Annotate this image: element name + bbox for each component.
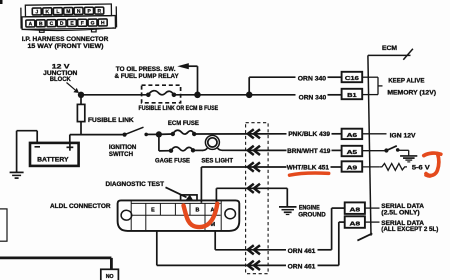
svg-text:(ALL EXCEPT 2 5L): (ALL EXCEPT 2 5L)	[381, 226, 438, 233]
node: oil pressure feed tap	[194, 92, 201, 99]
svg-text:DIAGNOSTIC TEST: DIAGNOSTIC TEST	[106, 181, 165, 188]
svg-text:ORN 340: ORN 340	[299, 94, 327, 101]
svg-text:A6: A6	[347, 133, 359, 139]
pin box A6	[342, 129, 363, 139]
pin D	[57, 20, 66, 27]
svg-text:(2.5L ONLY): (2.5L ONLY)	[381, 209, 419, 216]
svg-text:J: J	[35, 9, 38, 15]
svg-text:ECM: ECM	[382, 45, 398, 52]
label: keep alive memory	[387, 78, 436, 97]
pin A	[26, 20, 35, 27]
pin box A9	[342, 161, 363, 171]
svg-text:ORN 461: ORN 461	[288, 248, 316, 255]
svg-text:& FUEL PUMP RELAY: & FUEL PUMP RELAY	[115, 73, 180, 80]
svg-text:ALDL CONNECTOR: ALDL CONNECTOR	[50, 203, 111, 210]
connector chevrons BRN/WHT	[248, 146, 260, 155]
connector chevrons WHT/BLK	[248, 162, 260, 171]
svg-text:BLOCK: BLOCK	[50, 76, 71, 83]
svg-text:NO: NO	[106, 274, 114, 280]
label: ignition switch	[109, 144, 137, 158]
svg-text:ORN 340: ORN 340	[298, 75, 327, 82]
connector chevrons ORN461 top	[248, 245, 260, 254]
ALDL pin letters	[151, 207, 216, 228]
pin box B1	[342, 89, 363, 99]
note box	[101, 269, 119, 280]
dashed box around fuse	[142, 85, 181, 103]
wire: gage fuse branch	[159, 134, 171, 151]
wire: PNK/BLK 439 to A6	[194, 133, 341, 135]
svg-text:R: R	[97, 8, 101, 14]
pin box A5	[342, 146, 363, 156]
connector mounting tabs	[40, 29, 97, 32]
wire: ALDL pin A to engine ground	[216, 188, 287, 206]
svg-text:SES LIGHT: SES LIGHT	[201, 157, 233, 164]
pin K	[43, 8, 52, 15]
svg-text:A9: A9	[347, 166, 359, 172]
battery B1	[30, 143, 79, 166]
pin P	[85, 7, 94, 14]
svg-text:MEMORY (12V): MEMORY (12V)	[387, 89, 436, 96]
svg-text:IGNITION: IGNITION	[109, 144, 137, 151]
fuse: gage fuse	[169, 147, 195, 153]
pin C	[47, 20, 56, 27]
svg-text:GAGE FUSE: GAGE FUSE	[155, 157, 191, 164]
svg-text:FUSIBLE LINK: FUSIBLE LINK	[88, 117, 134, 124]
keep alive memory bracket	[362, 77, 382, 94]
svg-text:F: F	[81, 21, 84, 27]
svg-text:B: B	[195, 208, 199, 214]
svg-text:SWITCH: SWITCH	[109, 151, 133, 158]
I.P. harness connector 15-way (shell)	[21, 4, 117, 31]
pin L	[53, 8, 62, 15]
wire: BRN/WHT 419 to A5	[222, 149, 342, 151]
pin E	[67, 19, 76, 26]
ALDL end circles	[121, 210, 132, 220]
pin B	[36, 20, 45, 27]
ECM boundary line	[357, 49, 413, 241]
svg-text:A: A	[29, 21, 33, 27]
svg-text:ECM FUSE: ECM FUSE	[168, 120, 200, 127]
label: I.P. harness connector	[22, 36, 109, 50]
wire: ORN 461 ALDL E to A8	[157, 222, 345, 265]
wire: battery positive to ignition switch	[70, 135, 125, 143]
node: ORN 340 split	[246, 92, 253, 99]
svg-text:G: G	[91, 20, 95, 26]
pin box A8 (2.5L)	[345, 202, 365, 214]
label: serial data 2.5L	[381, 203, 438, 233]
leftover box from adjacent diagram	[0, 209, 7, 241]
ground: ECM internal	[400, 156, 417, 162]
ALDL inner grid	[131, 200, 221, 231]
pin J	[32, 8, 41, 15]
pin G	[88, 19, 97, 26]
wire: WHT/BLK 451 diagnostic to A9	[201, 167, 341, 203]
svg-text:N: N	[77, 9, 81, 15]
fusible link F1	[77, 104, 84, 121]
wire: ORN 340 to C16	[249, 77, 341, 95]
wire: ORN 461 ALDL M to A8	[215, 208, 345, 250]
connector chevrons PNK/BLK	[248, 129, 260, 138]
marker: orange J bracket at 5-6V	[424, 153, 441, 156]
svg-text:FUSIBLE LINK OR ECM B FUSE: FUSIBLE LINK OR ECM B FUSE	[139, 105, 219, 112]
svg-text:GROUND: GROUND	[298, 211, 326, 218]
fuse: ECM fuse	[171, 130, 197, 136]
wire: battery negative	[17, 131, 38, 172]
connector chevrons ORN461 bottom	[248, 261, 260, 270]
switch: diagnostic mode switch	[362, 146, 409, 156]
svg-text:15 WAY (FRONT VIEW): 15 WAY (FRONT VIEW)	[28, 43, 104, 50]
arrow to junction block	[67, 83, 80, 94]
svg-text:B1: B1	[347, 93, 357, 99]
wire: to oil press sw arrow	[177, 63, 197, 95]
svg-text:D: D	[60, 21, 64, 27]
connector chevrons ground	[248, 184, 260, 193]
svg-text:A8: A8	[350, 207, 362, 213]
ignition switch S1	[123, 127, 159, 137]
pin F	[78, 19, 87, 26]
svg-text:M: M	[66, 9, 70, 15]
svg-text:5-6 V: 5-6 V	[412, 165, 431, 172]
node: ignition feed junction	[156, 131, 162, 137]
resistor: ECM pull-up	[362, 164, 407, 171]
svg-text:L: L	[56, 9, 59, 15]
pin M	[64, 8, 73, 15]
marker: orange U jumper on ALDL A-B	[184, 204, 218, 227]
svg-text:KEEP ALIVE: KEEP ALIVE	[388, 78, 425, 85]
ground: battery	[10, 172, 24, 178]
ALDL connector body	[118, 200, 240, 231]
svg-text:ORN 461: ORN 461	[288, 264, 316, 271]
pin box C16	[342, 72, 363, 82]
wire: A8 serial data leads	[365, 208, 380, 222]
label: to oil press sw & fuel pump relay	[115, 66, 180, 80]
svg-text:PNK/BLK 439: PNK/BLK 439	[288, 131, 330, 138]
svg-text:WHT/BLK 451: WHT/BLK 451	[287, 164, 330, 171]
svg-text:K: K	[45, 9, 49, 15]
svg-text:C: C	[50, 21, 54, 27]
wire: main B+ feed	[81, 94, 342, 96]
svg-text:BATTERY: BATTERY	[37, 156, 69, 163]
svg-text:E: E	[151, 208, 155, 214]
svg-text:A5: A5	[347, 150, 359, 156]
svg-text:C16: C16	[345, 76, 360, 82]
fuse: fusible link or ECM B fuse	[146, 91, 176, 97]
wire: ECM fuse feed	[159, 133, 173, 135]
wire: fusible link branch	[80, 95, 82, 135]
label: engine ground	[298, 205, 326, 219]
dashed bulkhead connector box	[246, 123, 269, 274]
svg-text:A8: A8	[350, 221, 362, 227]
wire: thick lead to note box	[0, 258, 111, 269]
svg-text:H: H	[101, 20, 105, 26]
pin H	[98, 19, 107, 26]
svg-text:B: B	[39, 21, 43, 27]
wire: A6 to IGN label	[362, 133, 386, 135]
label: 12V junction block	[43, 64, 78, 83]
lamp: SES light	[193, 135, 222, 150]
pin N	[74, 7, 83, 14]
marker: orange underline WHT/BLK 451	[290, 173, 329, 175]
svg-text:BRN/WHT 419: BRN/WHT 419	[287, 148, 331, 155]
ground: engine ground	[279, 207, 297, 215]
ALDL top tab	[181, 195, 197, 201]
corner blob	[0, 0, 3, 4]
svg-text:IGN 12V: IGN 12V	[390, 132, 417, 139]
node: 12V junction	[78, 92, 84, 98]
pin R	[95, 7, 104, 14]
arrow: diagnostic test	[166, 187, 194, 201]
pin box A8 (all except 2.5L)	[345, 216, 365, 228]
